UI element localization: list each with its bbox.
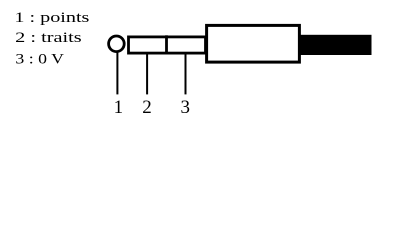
cable (solid black): [300, 35, 372, 55]
leader line 3: [185, 54, 187, 94]
svg-text:1 : points: 1 : points: [14, 10, 89, 26]
leader line 2: [146, 54, 148, 94]
svg-text:2 : traits: 2 : traits: [15, 30, 82, 46]
svg-text:3: 3: [180, 97, 190, 118]
svg-text:1: 1: [114, 97, 124, 118]
svg-text:3 : 0 V: 3 : 0 V: [15, 51, 64, 67]
plug body rectangle: [207, 25, 300, 62]
jack shaft rectangle (contacts 2-3): [129, 37, 206, 53]
leader line 1: [116, 52, 118, 95]
shaft divider line: [165, 35, 168, 54]
jack tip circle (contact 1): [109, 36, 125, 52]
svg-text:2: 2: [142, 97, 152, 118]
